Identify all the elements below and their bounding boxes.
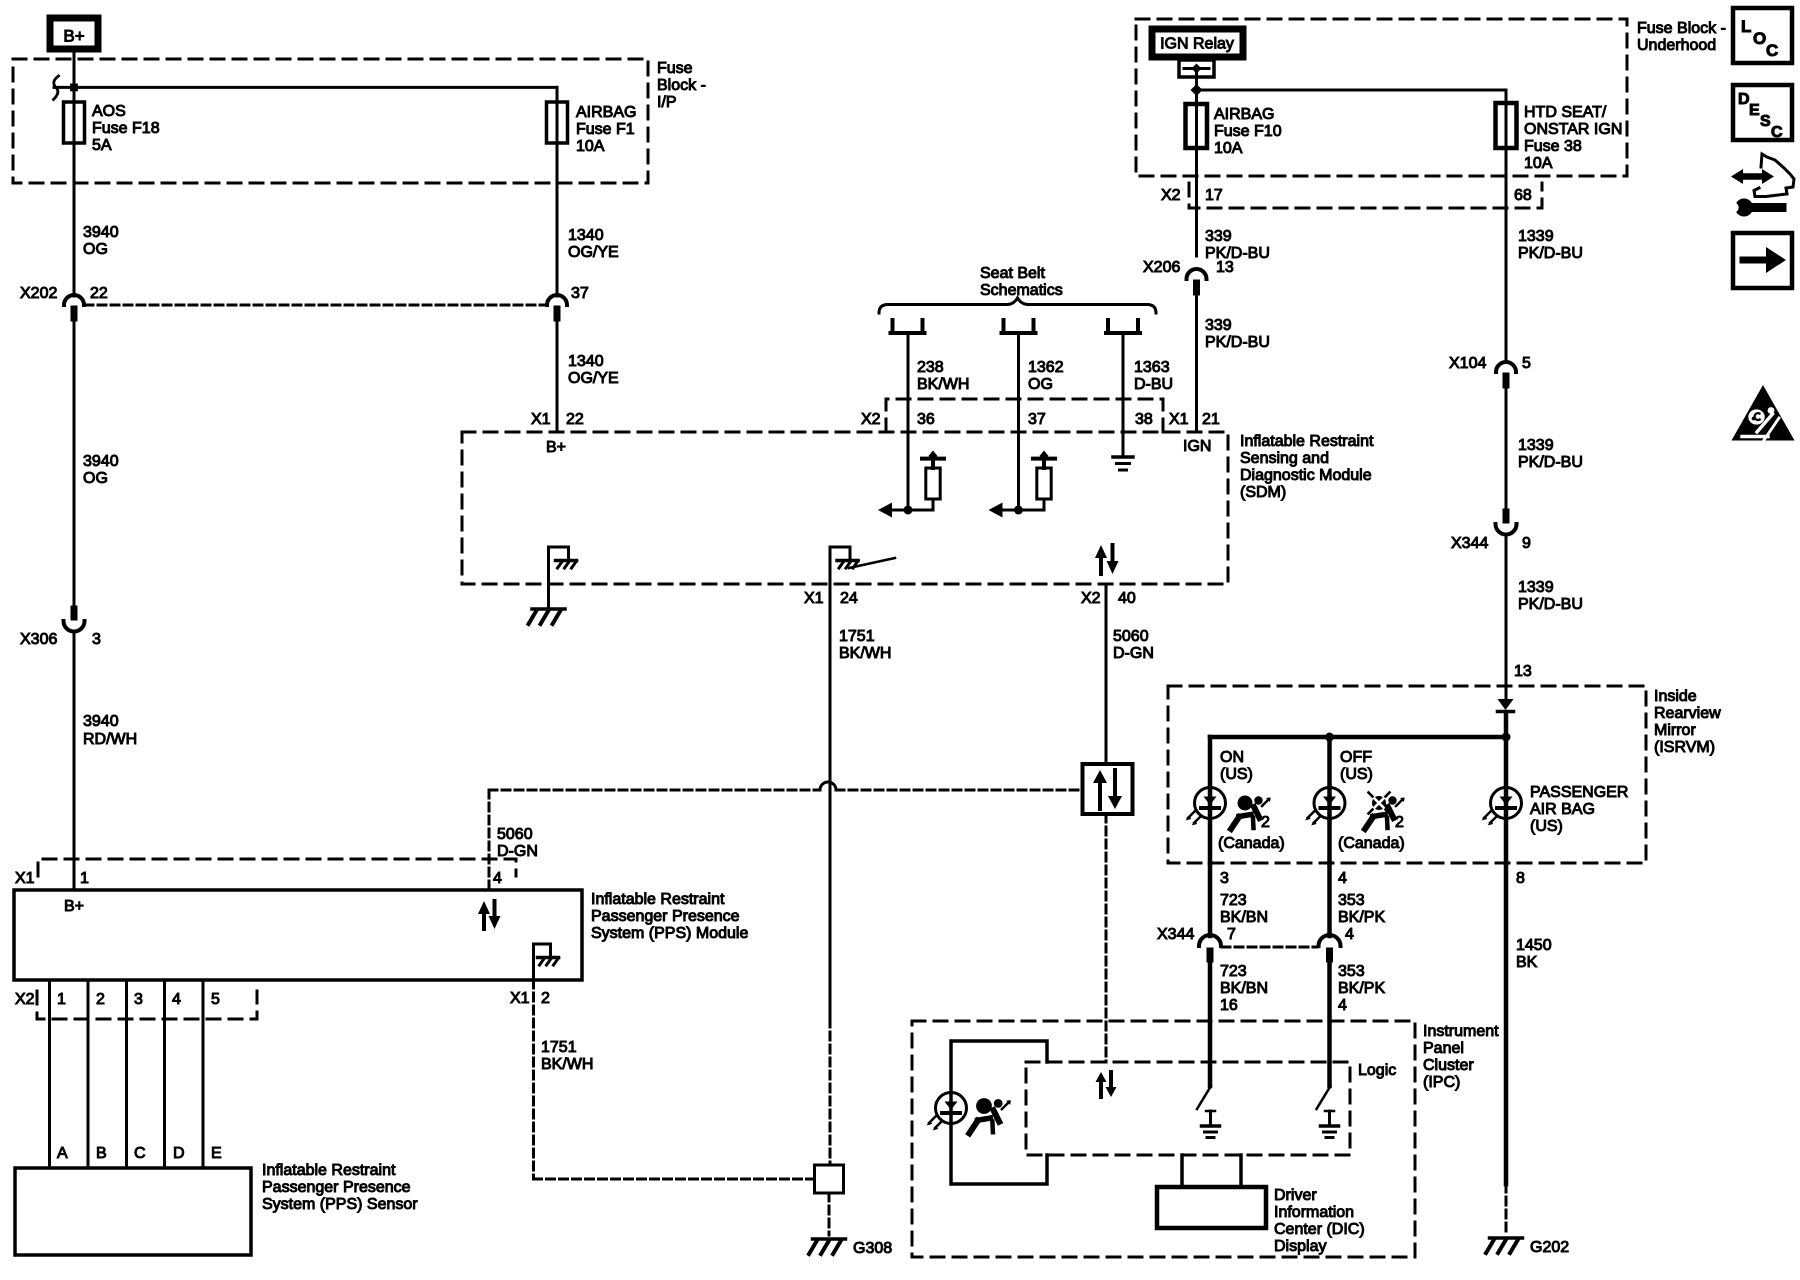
chassis ground below SDM — [529, 609, 566, 624]
svg-text:D: D — [173, 1145, 185, 1162]
SDM pin X1 22 — [531, 411, 584, 428]
svg-text:5060: 5060 — [1113, 628, 1149, 645]
resistor sense pin 36 — [878, 451, 944, 518]
svg-text:OG: OG — [1028, 376, 1053, 393]
label Inside Rearview Mirror — [1654, 688, 1721, 756]
resistor sense pin 37 — [989, 451, 1056, 518]
ground G202 — [1486, 1238, 1569, 1256]
svg-text:(IPC): (IPC) — [1423, 1074, 1460, 1091]
svg-text:BK/WH: BK/WH — [541, 1056, 593, 1073]
svg-text:(ISRVM): (ISRVM) — [1654, 739, 1715, 756]
label PPS sensor — [262, 1162, 418, 1213]
pin labels X2 17 68 — [1161, 187, 1532, 204]
svg-text:3940: 3940 — [83, 224, 119, 241]
svg-text:L: L — [1741, 17, 1751, 36]
connector X2 bracket underhood — [1189, 183, 1542, 208]
diode — [1498, 699, 1514, 712]
svg-text:X2: X2 — [15, 991, 35, 1008]
svg-text:Inflatable Restraint: Inflatable Restraint — [1240, 433, 1374, 450]
wire 723 BK/BN 16 label — [1220, 963, 1268, 1014]
svg-text:Inside: Inside — [1654, 688, 1697, 705]
svg-text:7: 7 — [1227, 926, 1236, 943]
svg-text:1339: 1339 — [1518, 437, 1554, 454]
wire 3940 OG label 2 — [83, 453, 119, 487]
wire 1339 PK/D-BU label — [1518, 228, 1583, 262]
fuse F1 AIRBAG 10A — [547, 102, 568, 143]
svg-text:B+: B+ — [546, 439, 566, 456]
label AOS Fuse F18 5A — [92, 103, 160, 154]
IPC LED circuit box — [951, 1041, 1047, 1184]
label ON (US) — [1220, 749, 1253, 783]
wire relay to fuse 38 — [1197, 90, 1507, 362]
svg-text:Center (DIC): Center (DIC) — [1274, 1221, 1365, 1238]
wire 3940 RD/WH label — [83, 713, 137, 748]
wire hop over 1751 — [820, 782, 836, 790]
svg-text:353: 353 — [1338, 892, 1365, 909]
wire OFF to X344 — [1327, 863, 1332, 936]
svg-text:3940: 3940 — [83, 453, 119, 470]
svg-text:Rearview: Rearview — [1654, 705, 1721, 722]
ISRVM pins 3 4 8 — [1220, 870, 1525, 887]
svg-text:(US): (US) — [1220, 766, 1253, 783]
svg-text:D-BU: D-BU — [1134, 376, 1173, 393]
svg-text:13: 13 — [1514, 663, 1532, 680]
svg-text:Block -: Block - — [657, 77, 706, 94]
svg-text:Cluster: Cluster — [1423, 1057, 1474, 1074]
LED indicator OFF — [1305, 788, 1345, 826]
wire 1751 BK/WH from PPS dashed — [534, 980, 815, 1179]
connector X1 bracket above PPS — [38, 859, 516, 876]
label B+ inside PPS — [64, 898, 84, 915]
svg-text:4: 4 — [1338, 870, 1347, 887]
junction node at B+ rail — [71, 84, 78, 91]
svg-text:AIR BAG: AIR BAG — [1530, 801, 1595, 818]
wire 3940 RD/WH — [73, 632, 76, 890]
svg-text:ON: ON — [1220, 749, 1244, 766]
wire 1339 PK/D-BU label 2 — [1518, 437, 1583, 471]
label Instrument Panel Cluster — [1423, 1023, 1499, 1091]
svg-text:B: B — [96, 1145, 107, 1162]
svg-text:1340: 1340 — [568, 227, 604, 244]
wire 339 to SDM IGN — [1195, 295, 1198, 432]
connector X344 dashed link — [1222, 946, 1317, 949]
svg-text:1: 1 — [80, 870, 89, 887]
svg-text:2: 2 — [1395, 814, 1404, 831]
PPS pin X1 2 — [510, 990, 550, 1007]
PPS sensor box — [15, 1168, 251, 1255]
svg-text:21: 21 — [1202, 411, 1220, 428]
warning triangle — [1732, 385, 1795, 441]
svg-text:Underhood: Underhood — [1637, 37, 1716, 54]
svg-text:1: 1 — [57, 991, 66, 1008]
connector X344 pin 7 — [1157, 926, 1236, 962]
svg-text:OFF: OFF — [1340, 749, 1372, 766]
label AIRBAG Fuse F1 10A — [576, 104, 636, 155]
svg-text:(Canada): (Canada) — [1218, 835, 1285, 852]
svg-text:A: A — [57, 1145, 68, 1162]
svg-text:X202: X202 — [20, 285, 57, 302]
svg-text:Instrument: Instrument — [1423, 1023, 1499, 1040]
svg-text:System (PPS) Sensor: System (PPS) Sensor — [262, 1196, 418, 1213]
SDM case ground wire — [547, 584, 550, 608]
svg-text:10A: 10A — [576, 138, 605, 155]
svg-text:4: 4 — [1345, 926, 1354, 943]
wire 339 PK/D-BU label — [1205, 228, 1270, 262]
svg-text:1751: 1751 — [541, 1039, 577, 1056]
svg-text:22: 22 — [566, 411, 584, 428]
svg-text:Fuse 38: Fuse 38 — [1524, 138, 1582, 155]
wire 1339 segment 2 — [1505, 389, 1508, 509]
svg-text:37: 37 — [571, 285, 589, 302]
label (Canada) ON — [1218, 835, 1285, 852]
DIC display legs — [1182, 1155, 1241, 1187]
wire OFF branch — [1327, 737, 1332, 863]
wire 1340 OG/YE label — [568, 227, 619, 261]
svg-text:5060: 5060 — [497, 826, 533, 843]
LED indicator IPC — [927, 1093, 967, 1131]
svg-text:BK: BK — [1516, 954, 1538, 971]
svg-text:2: 2 — [96, 991, 105, 1008]
wire 5060 D-GN label — [1113, 628, 1154, 662]
label HTD SEAT/ONSTAR IGN Fuse 38 10A — [1524, 104, 1622, 172]
svg-text:B+: B+ — [63, 27, 84, 46]
label PASSENGER AIR BAG (US) — [1530, 784, 1628, 835]
svg-text:C: C — [1771, 124, 1783, 141]
label Driver Information Center — [1274, 1187, 1365, 1255]
svg-text:X344: X344 — [1157, 926, 1194, 943]
svg-text:X1: X1 — [531, 411, 551, 428]
svg-text:Passenger Presence: Passenger Presence — [591, 908, 740, 925]
wire 1751 BK/WH from SDM — [829, 584, 832, 1019]
svg-text:X104: X104 — [1449, 355, 1486, 372]
svg-text:OG: OG — [83, 470, 108, 487]
svg-text:Schematics: Schematics — [980, 282, 1063, 299]
svg-text:D-GN: D-GN — [1113, 645, 1154, 662]
serial data junction box — [1083, 764, 1133, 814]
SDM pin labels X2 36 37 38 X1 21 — [861, 411, 1220, 428]
fusible link curl — [54, 76, 59, 100]
svg-text:Fuse: Fuse — [657, 60, 693, 77]
wire 353 BK/PK label — [1338, 892, 1385, 926]
svg-text:C: C — [134, 1145, 146, 1162]
junction dot OFF branch — [1325, 733, 1334, 742]
sensor wire B — [87, 980, 90, 1168]
svg-text:1363: 1363 — [1134, 359, 1170, 376]
wire 1340 OG/YE label 2 — [568, 353, 619, 387]
svg-text:2: 2 — [1261, 814, 1270, 831]
wire ON branch — [1208, 737, 1213, 863]
icon double arrow with outline — [1731, 154, 1794, 197]
airbag icon OFF crossed — [1365, 793, 1405, 832]
connector X344 pin 4 — [1319, 926, 1355, 962]
relay contact symbol — [1179, 60, 1214, 77]
seat belt wire 238 BK/WH — [907, 333, 910, 510]
svg-text:C: C — [1766, 41, 1778, 60]
svg-text:68: 68 — [1514, 187, 1532, 204]
svg-text:3: 3 — [134, 991, 143, 1008]
svg-text:O: O — [1753, 29, 1766, 48]
sensor wire C — [125, 980, 128, 1168]
serial data arrows in PPS — [478, 901, 501, 929]
svg-text:Inflatable Restraint: Inflatable Restraint — [591, 891, 725, 908]
wire ON to X344 — [1208, 863, 1213, 936]
svg-text:5: 5 — [211, 991, 220, 1008]
svg-text:4: 4 — [493, 870, 502, 887]
label PPS module — [591, 891, 748, 942]
svg-text:40: 40 — [1118, 590, 1136, 607]
svg-text:BK/BN: BK/BN — [1220, 980, 1268, 997]
svg-text:X2: X2 — [1161, 187, 1181, 204]
label (Canada) OFF — [1338, 835, 1405, 852]
svg-text:OG/YE: OG/YE — [568, 244, 619, 261]
splice box — [815, 1165, 844, 1193]
svg-text:4: 4 — [172, 991, 181, 1008]
svg-text:RD/WH: RD/WH — [83, 731, 137, 748]
fuse F18 AOS 5A — [64, 102, 85, 143]
svg-text:X1: X1 — [15, 870, 35, 887]
label OFF (US) — [1340, 749, 1373, 783]
wire 723 BK/BN label — [1220, 892, 1268, 926]
svg-text:1339: 1339 — [1518, 228, 1554, 245]
svg-text:17: 17 — [1205, 187, 1223, 204]
svg-text:Fuse F1: Fuse F1 — [576, 121, 635, 138]
wire 1751 BK/WH label 2 — [541, 1039, 593, 1073]
svg-text:723: 723 — [1220, 963, 1247, 980]
svg-text:Logic: Logic — [1358, 1062, 1396, 1079]
wire 1751 BK/WH label — [839, 628, 891, 662]
wire relay to fuse F10 — [1195, 77, 1198, 256]
SDM internal ground left — [549, 547, 577, 584]
svg-text:X1: X1 — [510, 990, 530, 1007]
svg-text:X2: X2 — [1081, 590, 1101, 607]
svg-text:PK/D-BU: PK/D-BU — [1205, 334, 1270, 351]
svg-text:Driver: Driver — [1274, 1187, 1317, 1204]
svg-text:16: 16 — [1220, 997, 1238, 1014]
serial data arrows in Logic — [1096, 1072, 1117, 1097]
svg-text:Inflatable Restraint: Inflatable Restraint — [262, 1162, 396, 1179]
connector X202 dashed link — [85, 304, 546, 307]
brace — [879, 298, 1156, 313]
connector X206 pin 13 — [1143, 259, 1234, 295]
junction dot PAB branch — [1502, 733, 1511, 742]
svg-text:Sensing and: Sensing and — [1240, 450, 1329, 467]
svg-text:IGN: IGN — [1183, 438, 1211, 455]
icon LOC box — [1733, 8, 1792, 63]
svg-text:PK/D-BU: PK/D-BU — [1205, 245, 1270, 262]
seat belt wire 1362 OG — [1017, 333, 1020, 510]
fuse F10 AIRBAG 10A — [1186, 104, 1208, 148]
wire 1450 BK label — [1516, 937, 1552, 971]
SDM switch to ground pin 24 — [830, 547, 895, 584]
wire diode to bus — [1504, 713, 1509, 737]
svg-text:(Canada): (Canada) — [1338, 835, 1405, 852]
airbag icon IPC — [969, 1098, 1010, 1133]
icon arrow box — [1733, 233, 1792, 288]
svg-text:HTD SEAT/: HTD SEAT/ — [1524, 104, 1607, 121]
wire 3940 OG to X306 — [73, 322, 76, 606]
svg-text:10A: 10A — [1524, 155, 1553, 172]
svg-text:OG: OG — [83, 241, 108, 258]
icon wrench — [1726, 199, 1782, 217]
label B+ inside SDM — [546, 439, 566, 456]
wire 5060 D-GN label 2 — [497, 826, 538, 860]
wire 238 BK/WH label — [917, 359, 969, 393]
svg-text:4: 4 — [1338, 997, 1347, 1014]
switch pin 16 — [1197, 1086, 1220, 1138]
svg-text:I/P: I/P — [657, 94, 677, 111]
svg-text:Seat Belt: Seat Belt — [980, 265, 1045, 282]
junction node under relay — [1191, 84, 1203, 96]
svg-text:G202: G202 — [1530, 1239, 1569, 1256]
svg-text:3: 3 — [92, 631, 101, 648]
svg-text:PK/D-BU: PK/D-BU — [1518, 454, 1583, 471]
connector X202 pin 37 — [547, 285, 589, 321]
svg-text:D-GN: D-GN — [497, 843, 538, 860]
svg-text:1751: 1751 — [839, 628, 875, 645]
svg-text:BK/WH: BK/WH — [917, 376, 969, 393]
svg-text:Display: Display — [1274, 1238, 1326, 1255]
DIC display box — [1157, 1187, 1266, 1228]
svg-text:AIRBAG: AIRBAG — [1214, 106, 1274, 123]
wire 5060 branch down to PPS — [488, 790, 491, 890]
wire 339 PK/D-BU label 2 — [1205, 317, 1270, 351]
svg-text:D: D — [1738, 91, 1750, 108]
svg-text:X2: X2 — [861, 411, 881, 428]
Logic dashed box — [1026, 1062, 1350, 1155]
svg-text:X306: X306 — [20, 631, 57, 648]
svg-text:5A: 5A — [92, 137, 112, 154]
svg-text:9: 9 — [1522, 535, 1531, 552]
svg-text:X206: X206 — [1143, 259, 1180, 276]
fuse 38 HTD SEAT/ONSTAR IGN 10A — [1496, 103, 1517, 148]
wire 3940 OG label — [83, 224, 119, 258]
wire 1339 segment 3 — [1505, 535, 1508, 699]
svg-text:E: E — [211, 1145, 222, 1162]
svg-text:PK/D-BU: PK/D-BU — [1518, 596, 1583, 613]
svg-text:13: 13 — [1216, 259, 1234, 276]
LED indicator ON — [1186, 788, 1226, 826]
earth ground pin 38 — [1113, 432, 1133, 470]
svg-text:PASSENGER: PASSENGER — [1530, 784, 1628, 801]
svg-text:1339: 1339 — [1518, 579, 1554, 596]
label Seat Belt Schematics — [980, 265, 1063, 299]
PPS module box — [14, 890, 582, 980]
IPC dashed box — [912, 1021, 1415, 1257]
ground G308 — [809, 1239, 892, 1257]
seat belt connector 1362 stub — [1002, 320, 1036, 333]
svg-text:S: S — [1760, 113, 1771, 130]
svg-text:System (PPS) Module: System (PPS) Module — [591, 925, 748, 942]
wire splice to G308 dashed — [828, 1193, 831, 1235]
svg-text:Fuse F18: Fuse F18 — [92, 120, 160, 137]
wire 1450 BK dashed tail — [1505, 1184, 1508, 1234]
connector X306 pin 3 — [20, 606, 101, 648]
svg-text:38: 38 — [1135, 411, 1153, 428]
svg-text:Passenger Presence: Passenger Presence — [262, 1179, 411, 1196]
ISRVM bus wire — [1210, 735, 1506, 740]
svg-text:Panel: Panel — [1423, 1040, 1464, 1057]
svg-text:1450: 1450 — [1516, 937, 1552, 954]
svg-text:OG/YE: OG/YE — [568, 370, 619, 387]
wire 5060 dashed to IPC — [1105, 814, 1108, 1062]
svg-text:PK/D-BU: PK/D-BU — [1518, 245, 1583, 262]
label AIRBAG Fuse F10 10A — [1214, 106, 1282, 157]
serial data arrows in junction box — [1093, 770, 1122, 809]
wire PAB branch — [1504, 737, 1509, 863]
wire 5060 branch to PPS dashed — [489, 789, 1082, 792]
label Fuse Block - I/P — [657, 60, 706, 111]
Fuse Block I/P dashed box — [13, 59, 648, 183]
svg-text:AIRBAG: AIRBAG — [576, 104, 636, 121]
svg-text:X344: X344 — [1451, 535, 1488, 552]
wire 1751 dashed to splice — [829, 1019, 832, 1165]
svg-text:B+: B+ — [64, 898, 84, 915]
svg-text:(SDM): (SDM) — [1240, 484, 1286, 501]
svg-text:BK/BN: BK/BN — [1220, 909, 1268, 926]
svg-text:339: 339 — [1205, 228, 1232, 245]
svg-text:22: 22 — [90, 285, 108, 302]
wire 5060 D-GN from SDM — [1105, 584, 1108, 764]
svg-text:(US): (US) — [1530, 818, 1563, 835]
connector X104 pin 5 — [1449, 355, 1531, 388]
svg-text:E: E — [1749, 102, 1760, 119]
svg-text:1362: 1362 — [1028, 359, 1064, 376]
sensor wire A — [48, 980, 51, 1168]
icon DESC box — [1733, 85, 1792, 141]
svg-text:Mirror: Mirror — [1654, 722, 1696, 739]
svg-text:(US): (US) — [1340, 766, 1373, 783]
SDM pin X1 24 — [804, 590, 858, 607]
LED indicator PASSENGER AIR BAG — [1482, 788, 1522, 826]
Fuse Block Underhood dashed box — [1136, 19, 1627, 176]
SDM pin X2 40 — [1081, 590, 1136, 607]
seat belt connector 238 stub — [891, 320, 925, 333]
serial data arrows SDM pin 40 — [1095, 545, 1119, 574]
PPS pin labels X1 1 4 — [15, 870, 502, 887]
sensor wire D — [163, 980, 166, 1168]
PPS pin labels X2 1-5 — [15, 991, 220, 1008]
wire 1340 OG/YE to SDM — [556, 322, 559, 432]
wire 1362 OG label — [1028, 359, 1064, 393]
label Logic — [1358, 1062, 1396, 1079]
svg-text:Diagnostic Module: Diagnostic Module — [1240, 467, 1372, 484]
svg-text:3: 3 — [1220, 870, 1229, 887]
svg-text:10A: 10A — [1214, 140, 1243, 157]
svg-text:353: 353 — [1338, 963, 1365, 980]
svg-text:339: 339 — [1205, 317, 1232, 334]
svg-text:Fuse Block -: Fuse Block - — [1637, 20, 1726, 37]
svg-text:IGN Relay: IGN Relay — [1160, 36, 1234, 53]
svg-text:723: 723 — [1220, 892, 1247, 909]
wire 1450 BK — [1504, 863, 1509, 1184]
label IGN inside SDM — [1183, 438, 1211, 455]
svg-text:3940: 3940 — [83, 713, 119, 730]
connector X344 pin 9 — [1451, 509, 1531, 552]
svg-text:238: 238 — [917, 359, 944, 376]
svg-text:Information: Information — [1274, 1204, 1354, 1221]
svg-text:BK/PK: BK/PK — [1338, 909, 1385, 926]
PPS internal ground — [534, 944, 559, 980]
svg-text:5: 5 — [1522, 355, 1531, 372]
wire B+ to fuse F18 — [73, 52, 76, 296]
sensor wire letters A-E — [57, 1145, 222, 1162]
svg-text:8: 8 — [1516, 870, 1525, 887]
SDM dashed box — [462, 432, 1228, 584]
wire to fuse F1 (horizontal) — [54, 87, 557, 296]
connector X202 pin 22 — [20, 285, 108, 321]
wire 353 BK/PK 4 label — [1338, 963, 1385, 1014]
wire 353 into IPC — [1327, 962, 1332, 1086]
